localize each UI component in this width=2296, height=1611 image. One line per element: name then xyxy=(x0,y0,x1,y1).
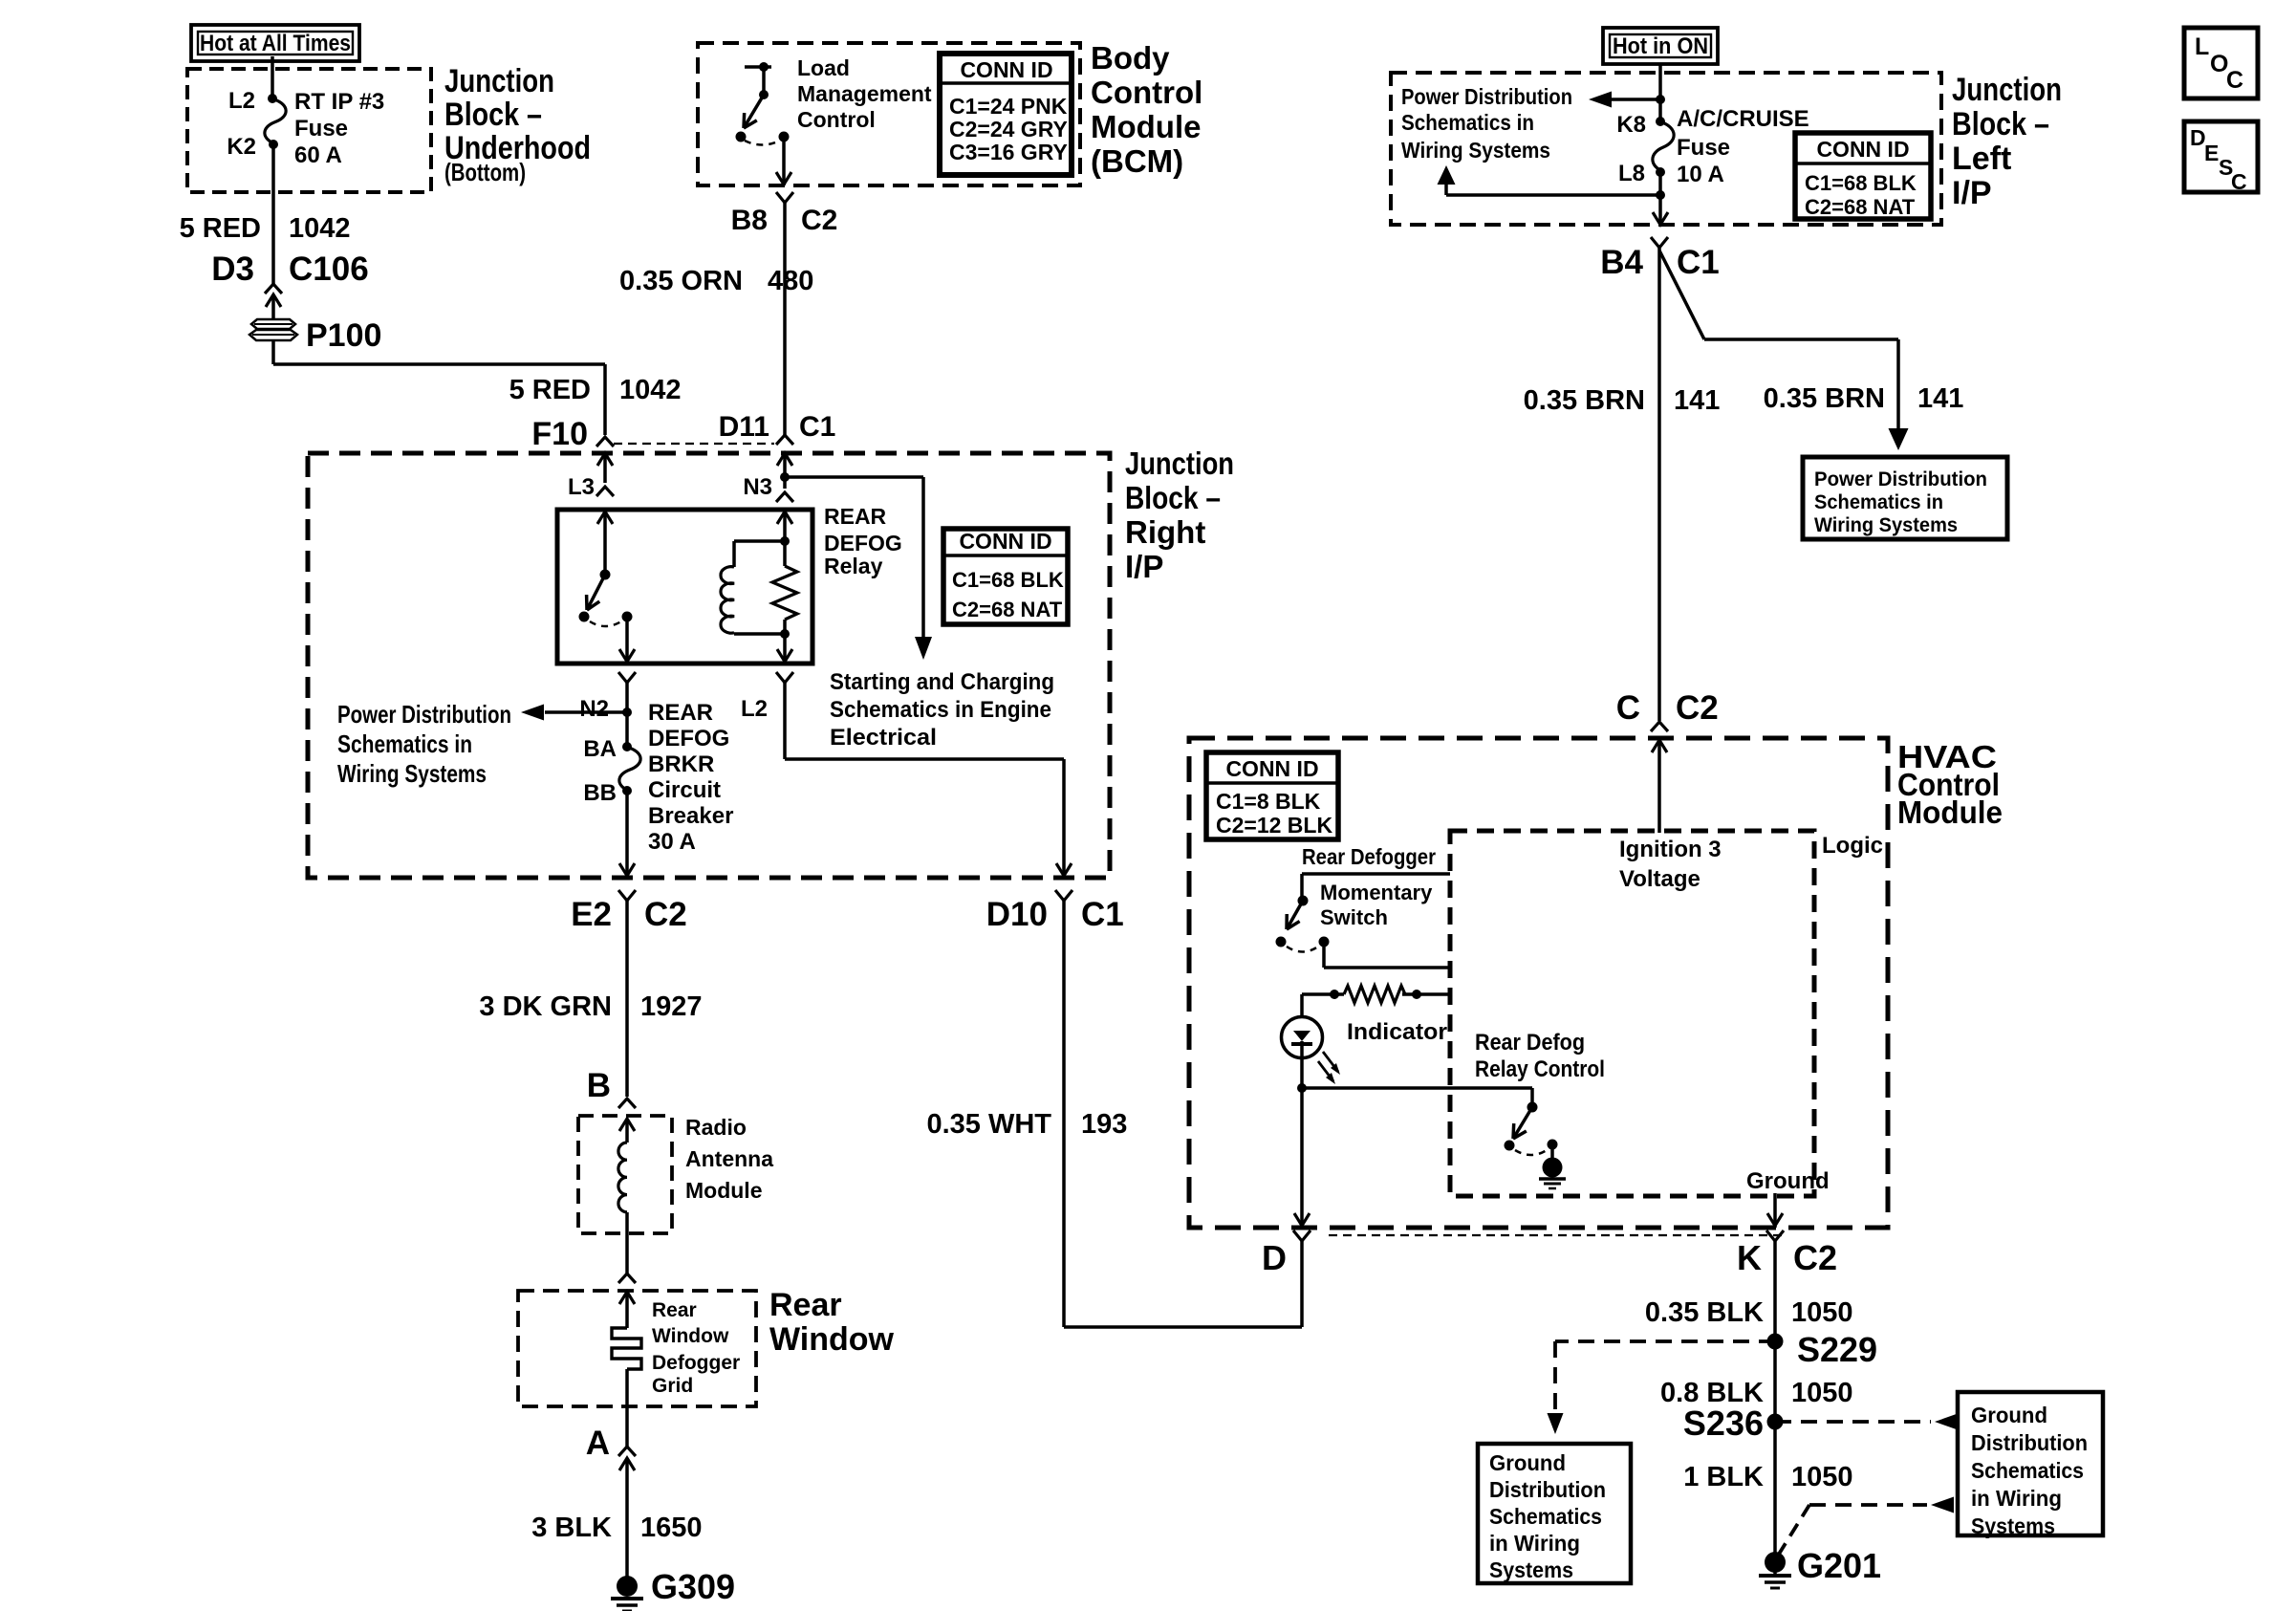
svg-text:C2: C2 xyxy=(644,896,687,933)
svg-text:K: K xyxy=(1737,1238,1762,1277)
svg-text:1050: 1050 xyxy=(1791,1297,1853,1328)
svg-text:141: 141 xyxy=(1917,383,1963,414)
svg-text:0.35 ORN: 0.35 ORN xyxy=(619,266,743,296)
svg-text:3 DK GRN: 3 DK GRN xyxy=(479,991,612,1022)
node K2 xyxy=(227,134,278,160)
svg-text:30 A: 30 A xyxy=(648,829,696,855)
wire L2 to D10 xyxy=(785,683,1072,878)
grommet P100 xyxy=(249,317,381,354)
pin B radio antenna module xyxy=(587,1067,636,1108)
svg-text:C1=68 BLK: C1=68 BLK xyxy=(952,568,1064,592)
svg-text:Wiring Systems: Wiring Systems xyxy=(1814,514,1958,536)
svg-text:C1=24 PNK: C1=24 PNK xyxy=(949,94,1068,119)
module label: HVAC Control Module xyxy=(1897,739,2003,830)
svg-text:Ignition 3: Ignition 3 xyxy=(1619,837,1722,862)
connector C C2 into HVAC xyxy=(1616,689,1719,731)
fuse A/C CRUISE 10A xyxy=(1653,106,1809,187)
connector line C2 thin dashed at HVAC bottom xyxy=(1329,1234,1786,1236)
svg-text:10 A: 10 A xyxy=(1677,162,1724,187)
svg-text:Module: Module xyxy=(685,1178,763,1203)
power label box: Hot at All Times xyxy=(191,25,359,61)
svg-text:Block –: Block – xyxy=(1952,106,2049,142)
LOC link box xyxy=(2184,28,2258,98)
module label: Junction Block - Left I/P xyxy=(1952,72,2062,211)
svg-text:Ground: Ground xyxy=(1489,1450,1566,1475)
rear defog relay box xyxy=(557,504,902,664)
svg-text:C: C xyxy=(1616,689,1640,727)
pin L2 below relay xyxy=(741,672,793,722)
svg-text:Junction: Junction xyxy=(1125,446,1234,481)
wire E2 down to B, 3 DK GRN 1927 xyxy=(479,901,702,1097)
connector B4 C1 xyxy=(1600,237,1720,281)
svg-text:K2: K2 xyxy=(227,134,256,160)
power distribution arrow (left IP bottom) xyxy=(1438,165,1666,200)
svg-text:Relay: Relay xyxy=(824,554,883,578)
svg-text:Control: Control xyxy=(797,107,876,132)
svg-text:Grid: Grid xyxy=(652,1375,693,1397)
CONN ID table HVAC xyxy=(1206,752,1338,839)
svg-text:Defogger: Defogger xyxy=(652,1352,740,1374)
pin L3 entry xyxy=(568,453,614,500)
power distribution schematics reference box xyxy=(1803,457,2007,539)
svg-text:N3: N3 xyxy=(743,474,772,500)
svg-text:C2: C2 xyxy=(1793,1238,1837,1277)
connector line C1 thin dashed xyxy=(614,443,774,445)
svg-text:in Wiring: in Wiring xyxy=(1489,1531,1580,1556)
connector D11 C1 into junction block right IP xyxy=(719,411,836,445)
antenna coil xyxy=(618,1119,635,1274)
svg-text:C1=8 BLK: C1=8 BLK xyxy=(1216,789,1321,814)
svg-text:L2: L2 xyxy=(741,696,768,722)
branch diagonal to power distribution box xyxy=(1659,250,1909,450)
svg-text:DEFOG: DEFOG xyxy=(648,726,729,751)
svg-text:Electrical: Electrical xyxy=(830,725,937,751)
svg-text:Schematics: Schematics xyxy=(1971,1458,2084,1483)
svg-text:Systems: Systems xyxy=(1489,1557,1573,1582)
indicator resistor xyxy=(1302,986,1450,1003)
connector D10 C1 xyxy=(986,890,1124,933)
dashed reference from S236 to right ground box xyxy=(1775,1414,1958,1430)
branch to starting and charging schematics xyxy=(785,477,1054,751)
wire D10 down and right to HVAC D, 0.35 WHT 193 xyxy=(926,901,1302,1327)
svg-text:Right: Right xyxy=(1125,514,1205,550)
svg-text:B4: B4 xyxy=(1600,244,1643,281)
radio antenna module dashed box xyxy=(578,1115,773,1233)
svg-text:REAR: REAR xyxy=(648,700,713,726)
svg-text:1927: 1927 xyxy=(640,991,703,1022)
svg-text:CONN ID: CONN ID xyxy=(960,57,1052,82)
pin F10 label xyxy=(531,416,614,452)
svg-text:5 RED: 5 RED xyxy=(180,213,261,244)
dashed reference from G201 up to right ground box xyxy=(1778,1497,1954,1557)
svg-text:I/P: I/P xyxy=(1125,549,1163,584)
pin N3 entry xyxy=(743,453,792,500)
svg-text:CONN ID: CONN ID xyxy=(1816,137,1909,162)
svg-text:Body: Body xyxy=(1091,40,1170,76)
svg-text:Schematics in: Schematics in xyxy=(337,729,472,758)
svg-text:C2=12 BLK: C2=12 BLK xyxy=(1216,813,1332,838)
rear defogger momentary switch xyxy=(1276,844,1451,968)
svg-text:Power Distribution: Power Distribution xyxy=(1814,468,1987,490)
svg-text:C2=68 NAT: C2=68 NAT xyxy=(1805,195,1916,219)
svg-text:C1: C1 xyxy=(1081,896,1124,933)
wire to G309, 3 BLK 1650 xyxy=(531,1458,702,1577)
svg-text:C1: C1 xyxy=(799,411,835,443)
wire label 0.35 BRN 141 (left) xyxy=(1524,385,1721,416)
svg-text:Schematics in: Schematics in xyxy=(1401,110,1534,135)
connector B8 C2 at BCM output xyxy=(731,192,838,236)
svg-text:193: 193 xyxy=(1081,1109,1127,1140)
junction block - left IP dashed box xyxy=(1391,73,1941,225)
CONN ID table BCM xyxy=(940,54,1072,175)
svg-text:Relay Control: Relay Control xyxy=(1475,1056,1605,1082)
svg-text:BA: BA xyxy=(583,736,617,762)
svg-text:Voltage: Voltage xyxy=(1619,866,1700,892)
svg-text:Schematics: Schematics xyxy=(1489,1504,1602,1529)
node K8 xyxy=(1616,112,1665,138)
svg-text:Rear: Rear xyxy=(652,1299,697,1321)
body control module dashed box xyxy=(698,43,1080,185)
wire B4 down to HVAC C pin xyxy=(1657,248,1661,721)
svg-text:Window: Window xyxy=(652,1325,729,1347)
svg-text:Module: Module xyxy=(1897,795,2003,830)
HVAC control module dashed box xyxy=(1189,738,1888,1228)
svg-text:L: L xyxy=(2195,33,2209,60)
svg-text:D: D xyxy=(1262,1238,1287,1277)
ignition 3 voltage wire into logic xyxy=(1619,740,1722,892)
svg-text:Momentary: Momentary xyxy=(1320,881,1433,904)
svg-text:C106: C106 xyxy=(289,250,369,288)
DESC link box xyxy=(2184,121,2258,194)
svg-text:D10: D10 xyxy=(986,896,1048,933)
svg-text:1042: 1042 xyxy=(619,375,682,405)
splice S229 xyxy=(1767,1330,1878,1369)
svg-text:Rear Defog: Rear Defog xyxy=(1475,1030,1585,1056)
svg-text:1042: 1042 xyxy=(289,213,351,244)
svg-text:Circuit: Circuit xyxy=(648,777,721,803)
svg-text:Distribution: Distribution xyxy=(1489,1477,1606,1502)
svg-text:Fuse: Fuse xyxy=(294,116,348,142)
indicator LED xyxy=(1282,994,1323,1058)
svg-text:G201: G201 xyxy=(1797,1546,1881,1585)
wire from P100 down, right, to F10 xyxy=(273,340,605,435)
svg-text:CONN ID: CONN ID xyxy=(959,529,1051,554)
svg-text:Ground: Ground xyxy=(1746,1168,1830,1194)
svg-text:Junction: Junction xyxy=(444,63,554,99)
svg-text:Power Distribution: Power Distribution xyxy=(337,700,511,729)
module label: Junction Block - Right I/P xyxy=(1125,446,1234,584)
svg-text:(BCM): (BCM) xyxy=(1091,143,1183,179)
dashed reference from S229 to left ground box xyxy=(1548,1341,1776,1434)
wire BB to E2 xyxy=(619,791,635,878)
node L8 xyxy=(1618,161,1665,186)
wire K to S229, 0.35 BLK 1050 xyxy=(1645,1241,1853,1341)
svg-text:Wiring Systems: Wiring Systems xyxy=(1401,138,1550,163)
svg-text:0.35 BRN: 0.35 BRN xyxy=(1524,385,1645,416)
svg-text:Power Distribution: Power Distribution xyxy=(1401,84,1572,109)
svg-text:Switch: Switch xyxy=(1320,905,1388,929)
connector A in-line xyxy=(586,1425,636,1470)
svg-text:D3: D3 xyxy=(211,250,254,288)
svg-text:480: 480 xyxy=(768,266,813,296)
connector E2 C2 xyxy=(571,890,687,933)
wire LED to D pin and relay control branch xyxy=(1294,1058,1532,1228)
svg-text:REAR: REAR xyxy=(824,504,887,529)
relay switch (L3 to N2) xyxy=(579,512,636,664)
rear defog relay control switch xyxy=(1475,1030,1605,1159)
module label: Junction Block - Underhood (Bottom) xyxy=(444,63,591,186)
LED emission arrows xyxy=(1318,1019,1447,1084)
svg-text:1 BLK: 1 BLK xyxy=(1683,1462,1764,1492)
ground G201 xyxy=(1759,1546,1881,1588)
svg-text:1650: 1650 xyxy=(640,1513,703,1543)
svg-text:Radio: Radio xyxy=(685,1115,747,1140)
svg-text:1050: 1050 xyxy=(1791,1378,1853,1408)
pin N2 below relay xyxy=(579,672,636,722)
ground distribution reference box (right) xyxy=(1958,1392,2103,1538)
svg-text:D11: D11 xyxy=(719,411,769,443)
fuse RT IP #3 60A xyxy=(265,89,384,168)
svg-text:Schematics in Engine: Schematics in Engine xyxy=(830,697,1051,723)
svg-text:3 BLK: 3 BLK xyxy=(531,1513,612,1543)
svg-text:Block –: Block – xyxy=(444,97,542,133)
svg-text:Antenna: Antenna xyxy=(685,1146,773,1171)
in-line connector to rear window xyxy=(618,1274,636,1283)
svg-text:in Wiring: in Wiring xyxy=(1971,1486,2062,1511)
svg-text:Breaker: Breaker xyxy=(648,803,733,829)
svg-text:C2: C2 xyxy=(801,205,837,236)
svg-text:BB: BB xyxy=(583,780,617,806)
svg-text:Management: Management xyxy=(797,81,932,106)
svg-text:Left: Left xyxy=(1952,141,2011,177)
load management control switch xyxy=(736,55,932,185)
svg-text:Rear Defogger: Rear Defogger xyxy=(1302,844,1436,869)
svg-text:Indicator: Indicator xyxy=(1347,1019,1447,1045)
svg-text:Module: Module xyxy=(1091,109,1201,144)
svg-text:Hot at All Times: Hot at All Times xyxy=(200,31,351,56)
svg-text:5 RED: 5 RED xyxy=(509,375,591,405)
rear defog circuit breaker 30A xyxy=(583,700,733,855)
svg-text:L2: L2 xyxy=(228,88,255,114)
svg-text:(Bottom): (Bottom) xyxy=(444,158,526,186)
connector C106 pin D3 in-line connector xyxy=(211,250,368,319)
svg-text:1050: 1050 xyxy=(1791,1462,1853,1492)
CONN ID table right IP xyxy=(943,529,1068,624)
svg-text:Wiring Systems: Wiring Systems xyxy=(337,759,487,788)
svg-text:Block –: Block – xyxy=(1125,480,1221,515)
svg-text:60 A: 60 A xyxy=(294,142,342,168)
svg-text:B8: B8 xyxy=(731,205,768,236)
svg-text:F10: F10 xyxy=(531,416,588,452)
svg-text:RT IP #3: RT IP #3 xyxy=(294,89,384,115)
svg-text:Rear: Rear xyxy=(769,1287,842,1323)
svg-text:0.35 WHT: 0.35 WHT xyxy=(926,1109,1051,1140)
svg-text:C2=24 GRY: C2=24 GRY xyxy=(949,117,1068,142)
wire label 0.35 BRN 141 (right) xyxy=(1764,383,1964,414)
svg-text:Schematics in: Schematics in xyxy=(1814,491,1943,513)
junction block - underhood dashed box xyxy=(187,69,431,192)
internal ground ball xyxy=(1539,1158,1566,1189)
power distribution arrow (left IP top) xyxy=(1401,84,1665,163)
svg-text:G309: G309 xyxy=(651,1567,735,1606)
svg-text:C2=68 NAT: C2=68 NAT xyxy=(952,598,1063,621)
svg-text:C1=68 BLK: C1=68 BLK xyxy=(1805,171,1917,195)
wire S229 to S236, 0.8 BLK 1050 xyxy=(1660,1341,1853,1422)
svg-text:BRKR: BRKR xyxy=(648,751,714,777)
svg-text:CONN ID: CONN ID xyxy=(1225,756,1318,781)
svg-text:I/P: I/P xyxy=(1952,175,1992,211)
svg-text:L8: L8 xyxy=(1618,161,1645,186)
svg-text:C2: C2 xyxy=(1676,689,1719,727)
svg-text:0.35 BRN: 0.35 BRN xyxy=(1764,383,1885,414)
svg-text:C: C xyxy=(2231,169,2247,194)
svg-text:Distribution: Distribution xyxy=(1971,1430,2088,1455)
wire from Hot at All Times into junction block xyxy=(271,56,274,98)
svg-text:A: A xyxy=(586,1425,610,1462)
svg-text:Junction: Junction xyxy=(1952,72,2062,108)
svg-text:Control: Control xyxy=(1091,75,1202,110)
node N3 junction dot xyxy=(776,472,793,502)
splice S236 xyxy=(1683,1404,1784,1443)
svg-text:E2: E2 xyxy=(571,896,612,933)
svg-text:C1: C1 xyxy=(1677,244,1720,281)
svg-text:S229: S229 xyxy=(1797,1330,1877,1369)
wire S236 to G201, 1 BLK 1050 xyxy=(1683,1422,1852,1577)
rear window dashed box xyxy=(518,1287,895,1406)
svg-text:C3=16 GRY: C3=16 GRY xyxy=(949,140,1068,164)
svg-text:Fuse: Fuse xyxy=(1677,135,1730,161)
connector D xyxy=(1262,1230,1310,1277)
wire B8 to D11, 0.35 ORN 480 xyxy=(619,203,813,435)
wire to B4 with exit arrow xyxy=(1653,195,1668,226)
node L2 xyxy=(228,88,277,114)
svg-text:B: B xyxy=(587,1067,611,1104)
connector K C2 xyxy=(1737,1230,1837,1277)
ground pin wire xyxy=(1746,1168,1830,1228)
junction block - right IP dashed box xyxy=(308,453,1110,878)
CONN ID table left IP xyxy=(1795,133,1931,219)
relay coil and resistor (N3 to L2) xyxy=(721,512,797,664)
wire K2 down to connector C106 xyxy=(271,144,275,284)
wire from Hot in ON down xyxy=(1658,63,1662,121)
svg-text:L3: L3 xyxy=(568,474,595,500)
svg-text:P100: P100 xyxy=(306,317,381,354)
svg-text:S236: S236 xyxy=(1683,1404,1764,1443)
ground distribution reference box (left) xyxy=(1478,1444,1631,1583)
svg-text:K8: K8 xyxy=(1616,112,1646,138)
svg-text:Ground: Ground xyxy=(1971,1403,2047,1427)
svg-text:Window: Window xyxy=(769,1321,895,1358)
svg-text:Logic: Logic xyxy=(1822,833,1883,859)
wire label 5 RED 1042 xyxy=(180,213,351,244)
svg-text:Hot in ON: Hot in ON xyxy=(1613,33,1708,59)
svg-text:DEFOG: DEFOG xyxy=(824,531,902,555)
svg-text:E: E xyxy=(2204,141,2219,165)
svg-text:A/C/CRUISE: A/C/CRUISE xyxy=(1677,106,1809,132)
svg-text:N2: N2 xyxy=(579,696,609,722)
svg-text:Load: Load xyxy=(797,55,850,80)
svg-text:Systems: Systems xyxy=(1971,1513,2055,1538)
power distribution reference arrow (right IP) xyxy=(337,700,632,788)
rear window defogger grid element xyxy=(612,1292,740,1447)
power label box: Hot in ON xyxy=(1603,28,1718,64)
svg-text:141: 141 xyxy=(1674,385,1720,416)
module label: Body Control Module (BCM) xyxy=(1091,40,1202,179)
svg-text:Starting and Charging: Starting and Charging xyxy=(830,669,1054,695)
svg-text:0.35 BLK: 0.35 BLK xyxy=(1645,1297,1764,1328)
svg-text:C: C xyxy=(2226,67,2243,94)
ground G309 xyxy=(611,1567,735,1611)
wire label 5 RED 1042 (second) xyxy=(509,375,682,405)
logic dashed box xyxy=(1450,831,1883,1196)
